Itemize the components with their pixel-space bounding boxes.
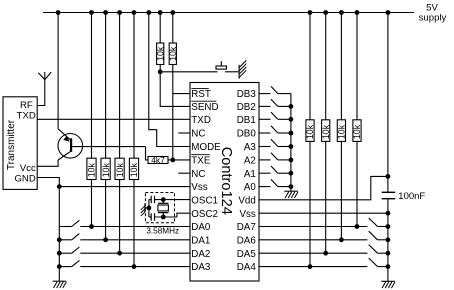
switch S3 (DA2): [59, 247, 79, 253]
IC left pin label SEND: [191, 101, 218, 113]
switch DB2: [271, 99, 291, 106]
junction R3/DA2: [117, 251, 122, 256]
svg-text:DB1: DB1: [237, 115, 256, 126]
junction DA6/ground rail: [386, 237, 391, 242]
svg-text:A2: A2: [244, 156, 256, 167]
wire transistor collector to Vcc pin: [37, 160, 58, 166]
switch A1: [271, 166, 291, 173]
resistor R1 10k: [87, 158, 97, 179]
junction DA4/ground rail: [386, 264, 391, 269]
IC left pin label Vss: [191, 182, 207, 193]
wire Vss pin to ground rail: [259, 212, 388, 214]
IC left pin label DA1: [191, 235, 210, 246]
switch DB3: [271, 86, 291, 93]
transmitter module box: [3, 97, 37, 190]
capacitor C2: [151, 213, 154, 220]
wire 4k7 to TXE pin: [168, 159, 190, 161]
wire RST pin stub: [173, 93, 190, 95]
wire 5V rail to resistor R5: [159, 13, 161, 44]
junction OSC2/crystal: [161, 215, 166, 220]
resistor R5 10k: [155, 43, 165, 65]
wire resistor R10 to DA5 line: [340, 141, 342, 239]
wire DB2 pin to switch: [259, 105, 271, 107]
wire oscillator left rail: [148, 200, 150, 217]
wire DA7 pin to switch: [259, 226, 367, 228]
svg-text:MODE: MODE: [191, 142, 221, 153]
switch DA4: [369, 258, 388, 267]
resistor R2 10k: [101, 158, 111, 179]
wire 5V rail to resistor R2: [105, 13, 107, 159]
wire resistor R6 down to TXE line: [172, 65, 174, 160]
svg-text:10k: 10k: [87, 163, 97, 178]
svg-text:10k: 10k: [337, 124, 347, 139]
wire resistor R2 to DA1 line: [105, 180, 107, 240]
svg-text:DA3: DA3: [191, 262, 211, 273]
svg-text:10k: 10k: [352, 124, 362, 139]
ground symbol right switch rail: [284, 190, 298, 192]
svg-text:DA1: DA1: [191, 235, 210, 246]
switch A2: [271, 153, 291, 160]
svg-text:10k: 10k: [168, 46, 178, 61]
NC pin stub lower: [178, 172, 190, 174]
svg-text:GND: GND: [14, 174, 35, 185]
wire transistor base line: [71, 146, 145, 148]
wire DA4 pin to switch: [259, 266, 367, 268]
junction R2/DA1: [103, 237, 108, 242]
wire pushbutton left contact: [160, 71, 217, 73]
crystal X1: [158, 200, 169, 217]
wire 5V rail to resistor R9: [325, 13, 327, 120]
wire DA1 switch to IC: [80, 239, 190, 241]
junction R1/DA0: [89, 224, 94, 229]
junction DA7/ground rail: [386, 224, 391, 229]
svg-text:10k: 10k: [305, 124, 315, 139]
switch DA6: [369, 231, 388, 240]
svg-text:4k7: 4k7: [151, 155, 165, 165]
IC left pin label OSC2: [191, 209, 218, 220]
wire 5V rail to resistor R11: [356, 13, 358, 120]
wire DA2 switch to IC: [80, 252, 190, 254]
svg-text:10k: 10k: [115, 163, 125, 178]
svg-text:10k: 10k: [129, 163, 139, 178]
wire DB1 pin to switch: [259, 118, 271, 120]
svg-text:100nF: 100nF: [398, 191, 425, 202]
wire resistor R3 to DA2 line: [119, 180, 121, 254]
svg-text:TXD: TXD: [17, 110, 36, 121]
svg-text:Contro124: Contro124: [218, 147, 234, 215]
wire OSC2 line: [149, 213, 190, 217]
svg-text:10k: 10k: [321, 124, 331, 139]
svg-text:Vcc: Vcc: [20, 163, 36, 174]
wire DA5 pin to switch: [259, 252, 367, 254]
junction R9/DA6: [323, 251, 328, 256]
junction dots ground rail at switch rows: [57, 237, 62, 269]
switch DB0: [271, 126, 291, 133]
svg-text:Vss: Vss: [239, 209, 255, 220]
svg-text:10k: 10k: [101, 163, 111, 178]
wire 5V rail to resistor R3: [119, 13, 121, 159]
wire DA3 switch to IC: [80, 266, 190, 268]
junction R10/DA5: [339, 237, 344, 242]
IC left pin label NC: [191, 169, 205, 180]
resistor R4 10k: [129, 158, 139, 179]
wire Vdd pin to 5V rail: [259, 176, 388, 199]
wire 5V rail to resistor R1: [91, 13, 93, 159]
switch DA5: [369, 245, 388, 254]
svg-text:NC: NC: [191, 129, 205, 140]
IC left pin label TXD: [191, 115, 211, 126]
junction oscillator ground tap: [147, 206, 152, 211]
wire resistor R11 to DA4 line: [356, 141, 358, 226]
label 5V supply: [419, 3, 447, 24]
5V supply rail (top power bus): [43, 12, 414, 14]
svg-text:DB3: DB3: [237, 89, 257, 100]
svg-text:SEND: SEND: [191, 102, 218, 113]
IC left pin label MODE: [191, 142, 221, 153]
transistor Q1 (PNP): [58, 129, 83, 160]
wire 5V rail down to Vdd/C3 node: [387, 13, 389, 193]
pushbutton SW1: [216, 61, 227, 69]
junction dots on switch common rail: [289, 104, 294, 189]
wire resistor R8 to DA7 line: [309, 141, 311, 266]
svg-text:DA2: DA2: [191, 249, 210, 260]
wire TXD transmitter to IC: [37, 118, 190, 120]
wire 5V rail to resistor R8: [309, 13, 311, 120]
wire A2 pin to switch: [259, 159, 271, 161]
svg-text:supply: supply: [419, 12, 447, 23]
switch A0: [271, 179, 291, 186]
svg-text:DA7: DA7: [237, 222, 256, 233]
wire 5V rail to MODE pin: [149, 13, 190, 147]
IC left pin label RST: [191, 88, 211, 100]
svg-text:Transmitter: Transmitter: [6, 119, 17, 170]
switch A3: [271, 139, 291, 146]
wire GND pin to ground rail: [37, 178, 59, 282]
NC pin stub upper: [178, 132, 190, 134]
svg-text:DA4: DA4: [237, 262, 257, 273]
svg-text:10k: 10k: [155, 46, 165, 61]
switch S1 (DA0): [59, 220, 79, 226]
resistor R6 10k: [168, 43, 178, 65]
wire OSC1 line: [149, 199, 190, 201]
wire RF pin to antenna: [37, 72, 45, 106]
svg-text:DA0: DA0: [191, 222, 211, 233]
IC left pin label DA3: [191, 262, 211, 273]
ground symbol bottom right: [381, 280, 395, 282]
svg-text:OSC1: OSC1: [191, 195, 218, 206]
junction R4/DA3: [132, 264, 137, 269]
junction GND/Vss: [57, 184, 62, 189]
wire A0 pin to switch: [259, 186, 271, 188]
wire C3 to ground rail: [387, 199, 389, 282]
svg-text:DA5: DA5: [237, 249, 257, 260]
wire DA0 switch to IC: [80, 226, 190, 228]
switch common rail (address/data): [290, 94, 292, 192]
junction DA5/ground rail: [386, 251, 391, 256]
IC U1 Contro124: [190, 83, 259, 282]
wire resistor R1 to DA0 line: [91, 180, 93, 227]
wire resistor R5 to SEND pin: [160, 65, 190, 107]
svg-text:3.58MHz: 3.58MHz: [146, 227, 179, 236]
svg-text:A3: A3: [244, 142, 257, 153]
svg-text:RST: RST: [191, 89, 211, 100]
switch S4 (DA3): [59, 260, 79, 266]
wire DA6 pin to switch: [259, 239, 367, 241]
svg-text:NC: NC: [191, 169, 205, 180]
ground symbol bottom left: [53, 280, 66, 282]
switch DB1: [271, 112, 291, 119]
svg-text:OSC2: OSC2: [191, 209, 218, 220]
wire pushbutton to ground: [225, 71, 239, 73]
IC left pin label OSC1: [191, 195, 218, 206]
svg-text:DB2: DB2: [237, 102, 256, 113]
svg-text:A1: A1: [244, 169, 256, 180]
junction Vdd node: [386, 174, 391, 179]
junction Vss/C3: [386, 211, 391, 216]
junction OSC1/crystal: [161, 197, 166, 202]
resistor R9 10k: [321, 120, 331, 142]
junction R5/pushbutton line: [158, 69, 163, 74]
wire resistor R9 to DA6 line: [325, 141, 327, 253]
resistor R3 10k: [115, 158, 125, 179]
wire Vss IC to ground rail: [59, 186, 190, 188]
capacitor C3 100nF: [382, 192, 396, 198]
wire DB3 pin to switch: [259, 93, 271, 95]
junction R8/DA7: [308, 264, 313, 269]
resistor R7 4k7: [148, 155, 168, 165]
svg-text:DB0: DB0: [237, 129, 257, 140]
wire 5V rail to resistor R10: [340, 13, 342, 120]
capacitor C1: [151, 196, 154, 203]
svg-text:DA6: DA6: [237, 235, 257, 246]
antenna: [38, 72, 51, 80]
IC left pin label DA0: [191, 222, 211, 233]
svg-text:Vdd: Vdd: [238, 195, 255, 206]
svg-text:TXE: TXE: [191, 156, 211, 167]
wire base to resistor 4k7: [146, 147, 149, 160]
resistor R8 10k: [305, 120, 315, 142]
resistor R11 10k: [352, 120, 362, 142]
ground symbol at pushbutton (side hatched): [239, 60, 246, 78]
wire A1 pin to switch: [259, 172, 271, 174]
svg-text:A0: A0: [244, 182, 257, 193]
IC left pin label NC: [191, 129, 205, 140]
switch S2 (DA1): [59, 234, 79, 240]
IC left pin label TXE: [191, 155, 211, 167]
IC left pin label DA2: [191, 249, 210, 260]
wire DB0 pin to switch: [259, 132, 271, 134]
wire 5V rail to resistor R4: [133, 13, 135, 159]
junction dots on 5V rail: [56, 10, 391, 15]
wire resistor R4 to DA3 line: [133, 180, 135, 267]
switch DA7: [369, 218, 388, 227]
crystal oscillator group (dashed box): [145, 193, 174, 223]
ground symbol at oscillator: [141, 203, 149, 216]
junction R6/TXE: [170, 158, 175, 163]
resistor R10 10k: [337, 120, 347, 142]
wire 5V rail to transistor emitter: [57, 13, 59, 129]
svg-text:TXD: TXD: [191, 115, 211, 126]
junction R11/DA4: [355, 224, 360, 229]
svg-text:Vss: Vss: [191, 182, 207, 193]
wire A3 pin to switch: [259, 146, 271, 148]
wire 5V rail to resistor R6: [172, 13, 174, 44]
